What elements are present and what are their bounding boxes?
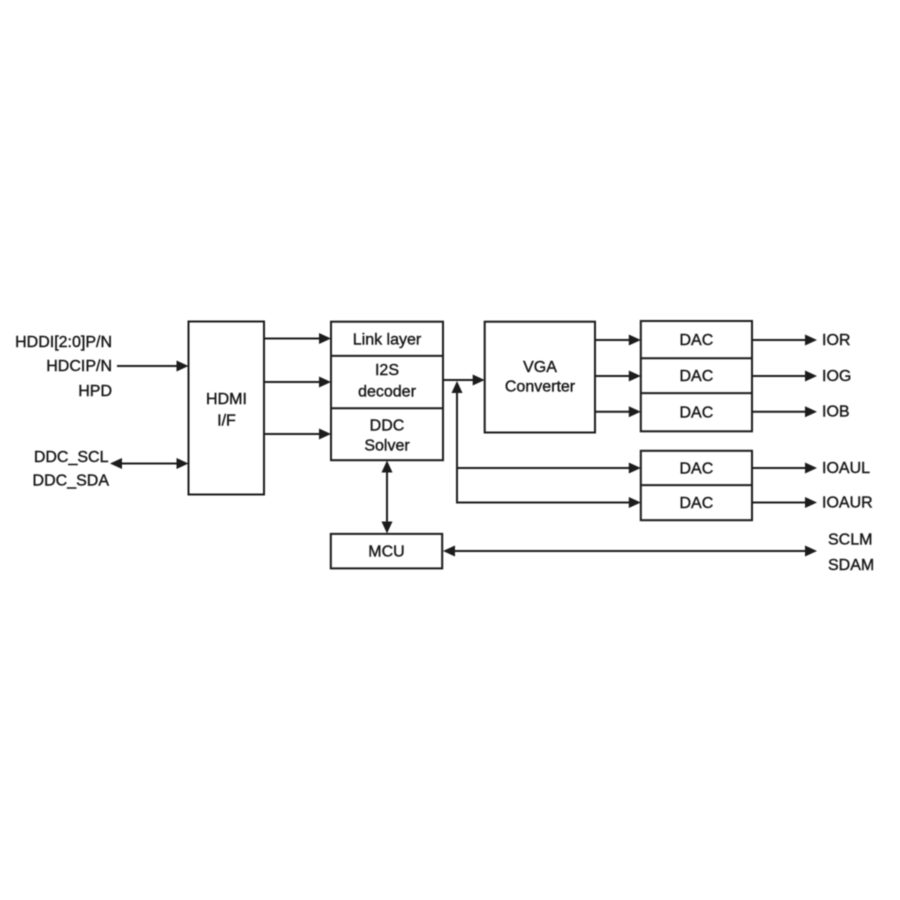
block DAC group audio (2 stacked DACs) — [641, 451, 752, 520]
svg-text:MCU: MCU — [368, 544, 404, 561]
svg-text:Link layer: Link layer — [353, 332, 422, 349]
wire DDC Solver to MCU (bidirectional vertical) — [382, 461, 393, 534]
block stack: Link layer / I2S decoder / DDC Solver — [331, 322, 443, 461]
wire audio branch to DAC IOAUR — [456, 497, 641, 508]
svg-text:SDAM: SDAM — [828, 557, 874, 574]
block MCU — [331, 534, 442, 569]
svg-text:IOAUL: IOAUL — [822, 460, 870, 477]
svg-text:DDC: DDC — [370, 418, 405, 435]
wire MCU to SCLM/SDAM (bidirectional) — [443, 546, 817, 557]
wire VGA Converter to DAC G — [595, 371, 641, 382]
wire DAC to IOR — [752, 335, 817, 346]
wire VGA Converter to DAC B — [595, 406, 641, 417]
svg-text:IOR: IOR — [822, 332, 850, 349]
wire audio branch to DAC IOAUL — [457, 463, 641, 474]
wire HDMI I/F to Link layer — [264, 333, 331, 344]
wire HDMI I/F to I2S decoder — [264, 377, 331, 388]
svg-text:HDDI[2:0]P/N: HDDI[2:0]P/N — [15, 334, 112, 351]
svg-text:IOG: IOG — [822, 368, 851, 385]
svg-text:Converter: Converter — [505, 378, 576, 395]
svg-text:DAC: DAC — [680, 461, 714, 478]
svg-text:I/F: I/F — [217, 413, 236, 430]
svg-text:DAC: DAC — [680, 495, 714, 512]
wire HDMI I/F to DDC Solver — [264, 429, 331, 440]
wire I2S decoder to VGA Converter — [443, 375, 485, 386]
wire DDC_SCL/SDA to HDMI I/F (bidirectional) — [110, 458, 189, 469]
block HDMI I/F — [189, 322, 265, 495]
svg-text:HPD: HPD — [78, 383, 112, 400]
svg-text:DAC: DAC — [680, 405, 714, 422]
svg-text:SCLM: SCLM — [828, 531, 872, 548]
svg-text:HDCIP/N: HDCIP/N — [46, 358, 112, 375]
wire audio bus vertical with up arrow at junction — [452, 381, 463, 503]
wire DAC to IOG — [752, 371, 817, 382]
svg-text:IOAUR: IOAUR — [822, 495, 873, 512]
svg-text:HDMI: HDMI — [206, 391, 247, 408]
svg-text:Solver: Solver — [364, 438, 410, 455]
svg-text:DAC: DAC — [680, 368, 714, 385]
wire DAC to IOAUR — [752, 497, 817, 508]
block VGA Converter — [485, 322, 595, 433]
svg-text:I2S: I2S — [375, 362, 399, 379]
block DAC group RGB (3 stacked DACs) — [641, 321, 752, 431]
wire VGA Converter to DAC R — [595, 335, 641, 346]
svg-text:DDC_SCL: DDC_SCL — [34, 449, 109, 466]
wire DAC to IOAUL — [752, 463, 817, 474]
wire HDCIP/N to HDMI I/F — [117, 361, 189, 372]
svg-text:DDC_SDA: DDC_SDA — [33, 473, 110, 490]
svg-text:IOB: IOB — [822, 404, 850, 421]
svg-text:DAC: DAC — [680, 332, 714, 349]
svg-text:decoder: decoder — [358, 384, 416, 401]
wire DAC to IOB — [752, 406, 817, 417]
svg-text:VGA: VGA — [523, 359, 557, 376]
